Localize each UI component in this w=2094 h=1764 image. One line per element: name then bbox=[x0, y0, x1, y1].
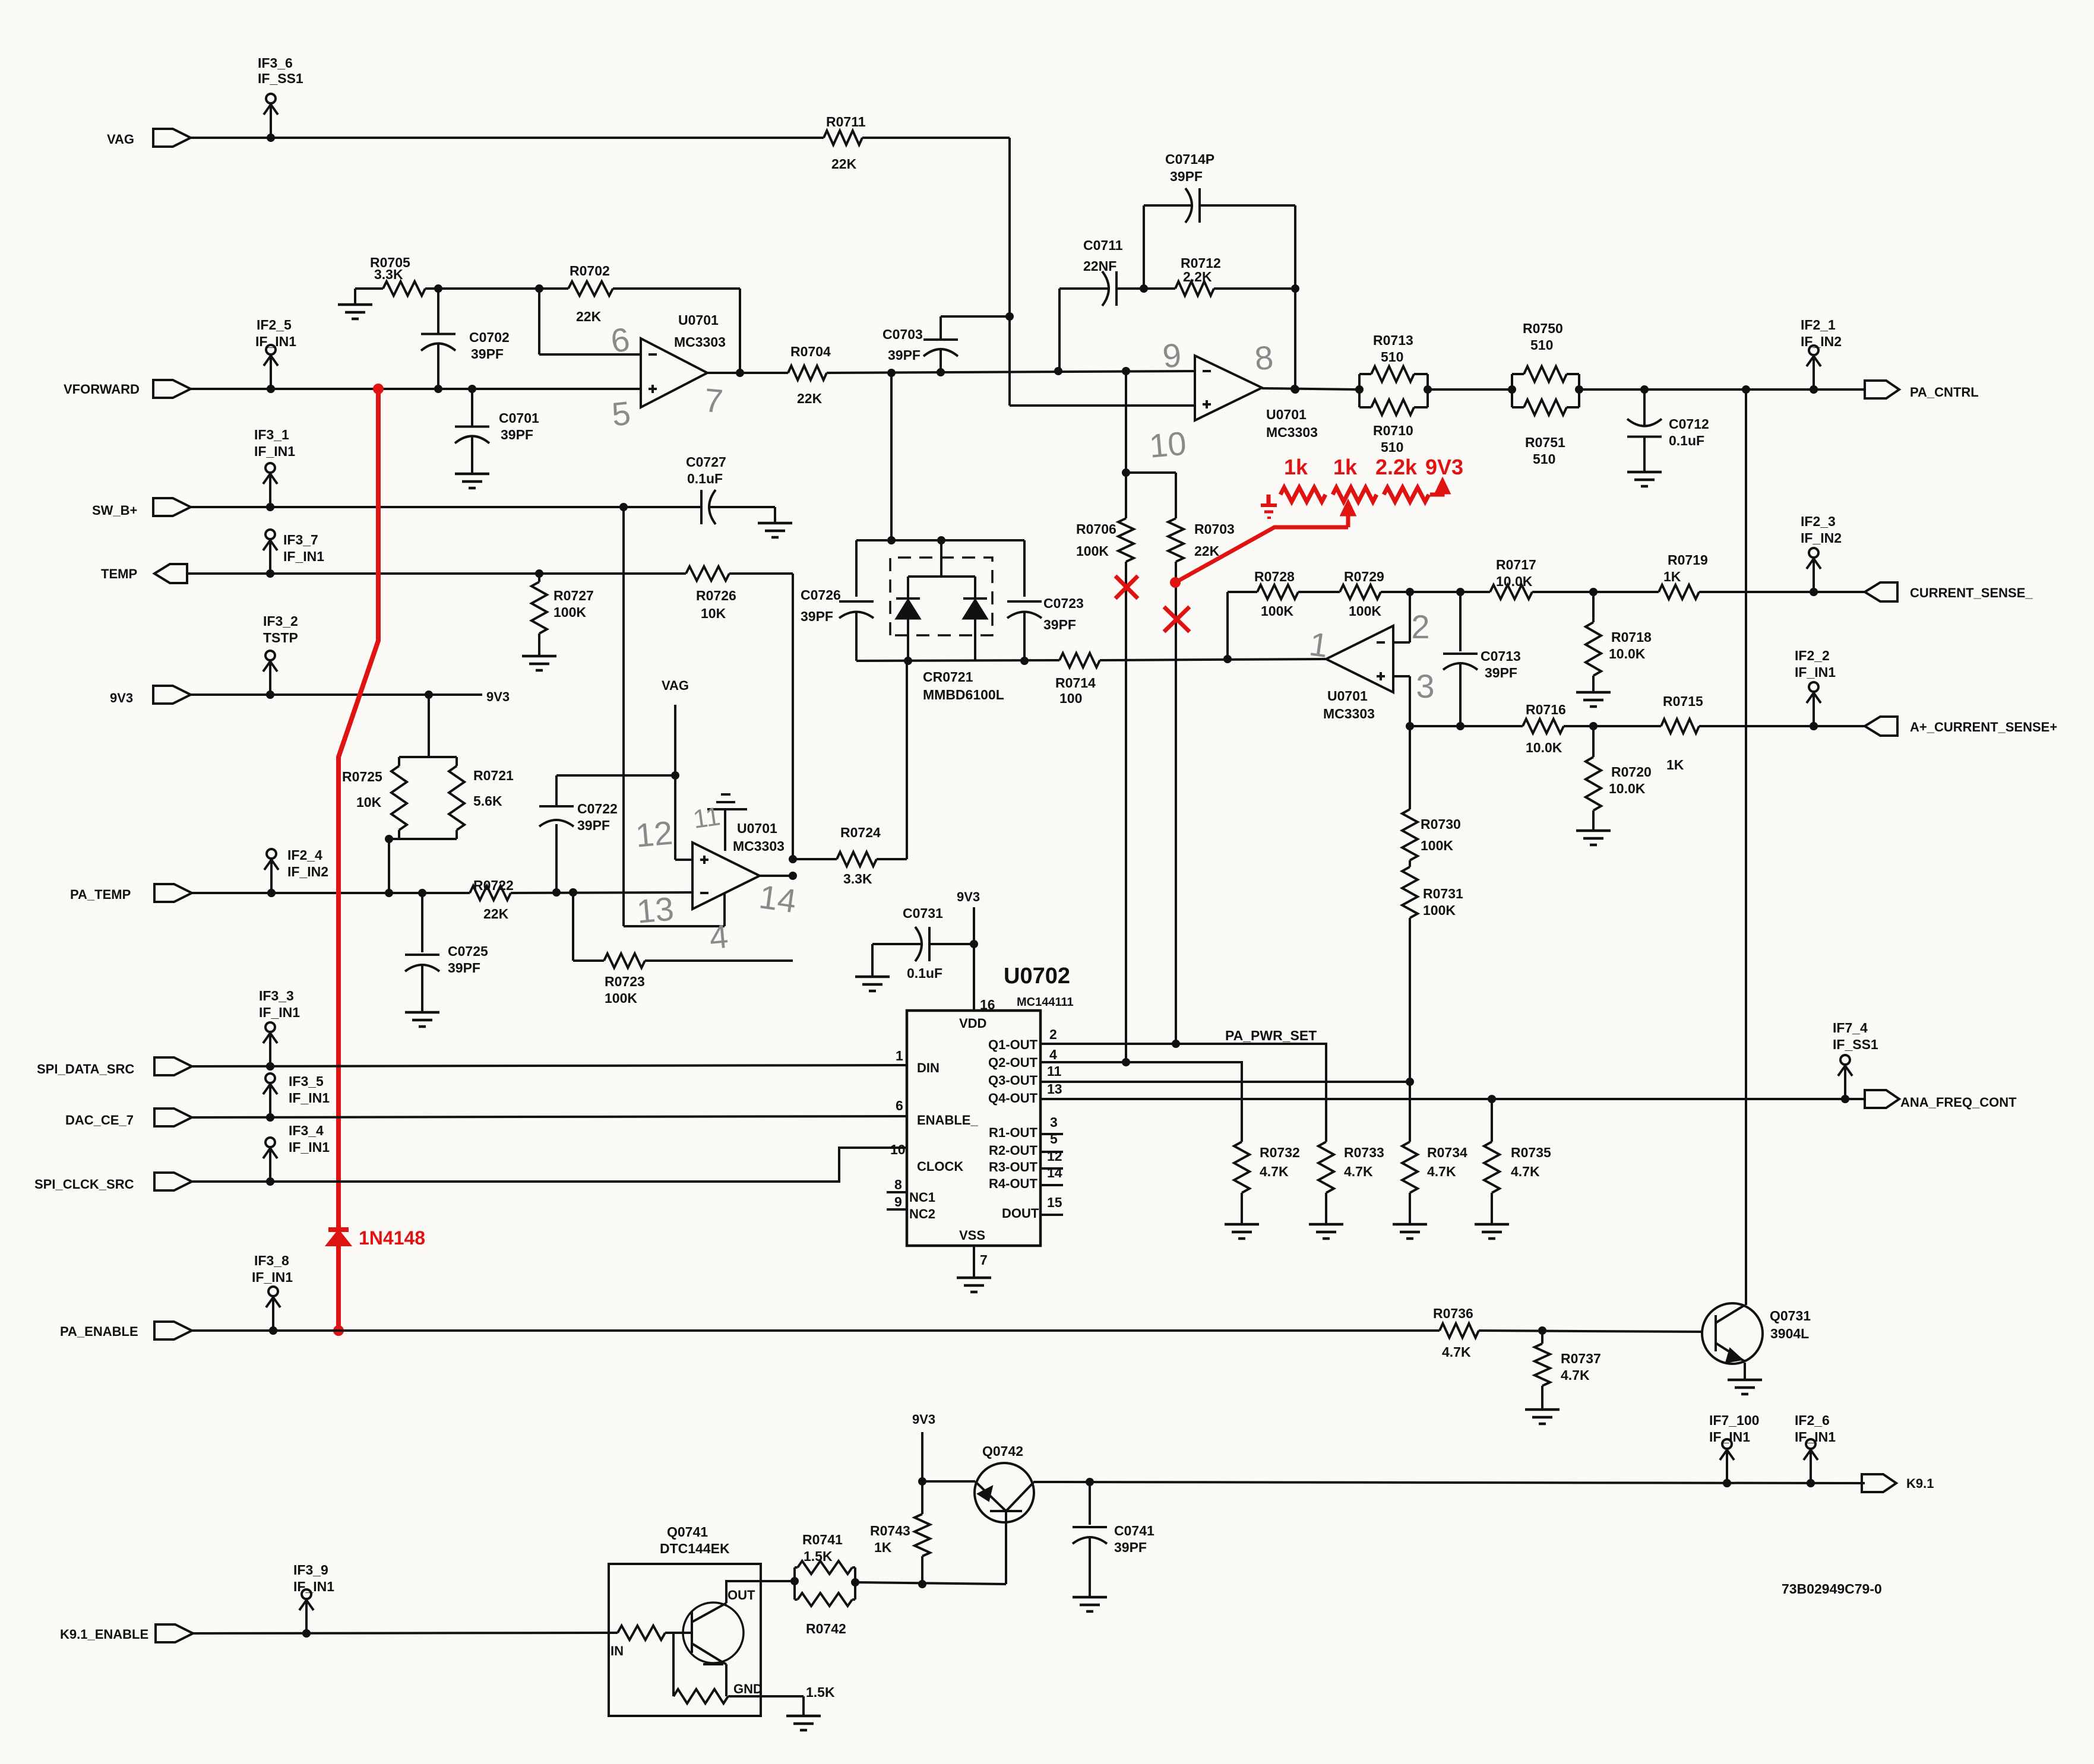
op-amp U0701 MC3303 section A bbox=[641, 338, 707, 407]
ground for R0705 bbox=[355, 287, 383, 290]
connector SPI_CLCK_SRC input bbox=[154, 1173, 192, 1190]
resistor R0728 100K bbox=[1257, 585, 1298, 599]
IC U0702 MC144111 box bbox=[907, 1011, 1040, 1246]
wire from R0704 node down to CR0721 bbox=[890, 373, 893, 540]
svg-text:R3-OUT: R3-OUT bbox=[989, 1160, 1037, 1174]
wire VAG line bbox=[191, 137, 824, 139]
svg-text:39PF: 39PF bbox=[1170, 169, 1203, 184]
svg-text:9V3: 9V3 bbox=[110, 691, 133, 705]
svg-text:IF_IN1: IF_IN1 bbox=[289, 1090, 330, 1106]
svg-text:4.7K: 4.7K bbox=[1344, 1164, 1373, 1179]
svg-text:10: 10 bbox=[890, 1142, 906, 1157]
svg-text:7: 7 bbox=[703, 381, 725, 420]
svg-text:IF7_4: IF7_4 bbox=[1833, 1020, 1868, 1035]
wire R0704 to second stage bbox=[827, 371, 1195, 373]
resistor R0704 22K bbox=[788, 366, 827, 380]
svg-text:IF3_6: IF3_6 bbox=[258, 55, 293, 71]
svg-text:SPI_DATA_SRC: SPI_DATA_SRC bbox=[37, 1062, 134, 1076]
svg-text:Q1-OUT: Q1-OUT bbox=[988, 1037, 1038, 1052]
wire feedback R0702 to op-amp output bbox=[613, 287, 740, 290]
wire VFORWARD line to op-amp + input bbox=[191, 388, 641, 390]
svg-text:22NF: 22NF bbox=[1083, 258, 1116, 274]
svg-text:7: 7 bbox=[980, 1252, 988, 1268]
wire R0731 down to R0734 bbox=[1409, 918, 1411, 1142]
svg-text:C0701: C0701 bbox=[499, 410, 539, 426]
wire Q4-OUT pin13 to ANA_FREQ_CONT bbox=[1040, 1098, 1865, 1100]
svg-text:K9.1: K9.1 bbox=[1906, 1476, 1934, 1491]
svg-text:8: 8 bbox=[1253, 338, 1275, 377]
svg-text:100K: 100K bbox=[1349, 603, 1381, 619]
svg-text:IF3_9: IF3_9 bbox=[293, 1562, 328, 1578]
svg-text:39PF: 39PF bbox=[577, 818, 610, 833]
svg-text:DOUT: DOUT bbox=[1002, 1206, 1039, 1221]
connector PA_TEMP input bbox=[154, 884, 192, 902]
svg-text:4.7K: 4.7K bbox=[1442, 1344, 1471, 1360]
svg-text:1: 1 bbox=[896, 1048, 903, 1063]
svg-text:2.2K: 2.2K bbox=[1183, 269, 1212, 284]
red resistor 1k second bbox=[1333, 487, 1377, 502]
svg-text:4.7K: 4.7K bbox=[1561, 1367, 1590, 1383]
svg-text:R0716: R0716 bbox=[1526, 702, 1566, 717]
svg-text:22K: 22K bbox=[831, 156, 857, 172]
svg-text:C0722: C0722 bbox=[577, 801, 618, 816]
svg-text:U0701: U0701 bbox=[737, 821, 777, 836]
svg-text:IF_SS1: IF_SS1 bbox=[258, 71, 303, 86]
svg-text:IF_IN1: IF_IN1 bbox=[289, 1139, 330, 1155]
wire Q3-OUT pin11 to R0730/R0731 node bbox=[1040, 1081, 1410, 1083]
svg-text:C0741: C0741 bbox=[1114, 1523, 1154, 1538]
svg-text:IF7_100: IF7_100 bbox=[1709, 1413, 1759, 1428]
capacitor C0723 39PF bbox=[1023, 540, 1026, 597]
svg-text:R0723: R0723 bbox=[605, 974, 645, 989]
svg-text:4: 4 bbox=[708, 917, 730, 956]
wire VAG to op-amp + input bbox=[674, 705, 676, 860]
svg-text:C0726: C0726 bbox=[801, 587, 841, 603]
svg-text:ENABLE_: ENABLE_ bbox=[917, 1113, 978, 1128]
svg-text:9: 9 bbox=[894, 1194, 902, 1209]
wire R0706 down to U0702 Q2-OUT bbox=[1125, 562, 1127, 1062]
capacitor C0726 39PF bbox=[855, 540, 858, 597]
transistor Q0731 3904L NPN bbox=[1702, 1303, 1763, 1364]
resistor pair R0713 / R0710 510 parallel bbox=[1358, 374, 1361, 407]
svg-text:CR0721: CR0721 bbox=[923, 669, 973, 685]
svg-text:1K: 1K bbox=[1663, 569, 1681, 584]
svg-text:100: 100 bbox=[1059, 691, 1082, 706]
connector SW_B+ input bbox=[153, 498, 191, 516]
svg-text:Q0731: Q0731 bbox=[1770, 1308, 1811, 1323]
svg-text:IF_IN1: IF_IN1 bbox=[293, 1579, 334, 1594]
svg-text:C0703: C0703 bbox=[882, 327, 923, 342]
svg-text:0.1uF: 0.1uF bbox=[907, 965, 942, 981]
svg-text:R0737: R0737 bbox=[1561, 1351, 1601, 1366]
red resistor 2.2k bbox=[1384, 487, 1429, 502]
svg-text:C0712: C0712 bbox=[1669, 416, 1709, 432]
transistor Q0741 DTC144EK box bbox=[609, 1564, 761, 1716]
svg-text:Q0742: Q0742 bbox=[982, 1443, 1023, 1459]
wire non-inverting input down to divider row bbox=[1393, 675, 1410, 677]
svg-text:R0702: R0702 bbox=[570, 263, 610, 278]
svg-text:R0730: R0730 bbox=[1421, 816, 1461, 832]
svg-text:9: 9 bbox=[1161, 336, 1183, 375]
svg-text:R0751: R0751 bbox=[1525, 435, 1565, 450]
svg-text:9V3: 9V3 bbox=[957, 889, 980, 904]
wire R0741 node to Q0742 base node bbox=[855, 1582, 1006, 1584]
svg-text:3904L: 3904L bbox=[1770, 1326, 1809, 1341]
pin 9 NC2 stub bbox=[887, 1208, 907, 1211]
svg-text:1K: 1K bbox=[1666, 757, 1684, 772]
svg-text:CURRENT_SENSE_: CURRENT_SENSE_ bbox=[1910, 585, 2033, 600]
dual diode CR0721 internal wiring bbox=[940, 540, 942, 577]
svg-text:22K: 22K bbox=[483, 906, 509, 921]
resistor R0733 4.7K bbox=[1318, 1142, 1334, 1193]
svg-text:3.3K: 3.3K bbox=[374, 267, 403, 282]
svg-text:0.1uF: 0.1uF bbox=[1669, 433, 1704, 448]
svg-text:0.1uF: 0.1uF bbox=[687, 471, 723, 486]
svg-text:R0715: R0715 bbox=[1663, 693, 1703, 709]
svg-text:R0703: R0703 bbox=[1194, 521, 1235, 537]
wire C0722 top to VAG node bbox=[556, 774, 675, 777]
resistor R0706 100K bbox=[1118, 518, 1134, 562]
ground for C0701 bbox=[455, 473, 489, 476]
svg-text:10K: 10K bbox=[356, 794, 382, 810]
svg-text:6: 6 bbox=[896, 1098, 903, 1113]
svg-text:39PF: 39PF bbox=[1043, 617, 1076, 632]
wire SW_B+ line bbox=[191, 506, 693, 508]
svg-text:R0732: R0732 bbox=[1260, 1145, 1300, 1160]
ground for C0712 bbox=[1627, 471, 1662, 474]
svg-text:100K: 100K bbox=[553, 604, 586, 620]
ground for R0718 bbox=[1576, 691, 1611, 694]
resistor R0705 3.3K bbox=[383, 281, 425, 296]
svg-text:C0723: C0723 bbox=[1043, 596, 1084, 611]
diode CR0721 A bbox=[896, 597, 920, 600]
svg-text:IF_IN2: IF_IN2 bbox=[1801, 530, 1842, 546]
red wire to 9V3 arrow bbox=[1430, 486, 1443, 495]
connector K9.1_ENABLE input bbox=[156, 1624, 193, 1642]
resistor R0719 1K bbox=[1659, 585, 1699, 599]
wire 9V3 to Q0742 emitter bbox=[921, 1432, 923, 1481]
svg-text:R0706: R0706 bbox=[1076, 521, 1116, 537]
resistor R0720 10.0K bbox=[1592, 726, 1595, 757]
resistor R0714 100 bbox=[1059, 653, 1100, 667]
wire Q0742 base down to R0741 node bbox=[1005, 1511, 1007, 1584]
svg-text:IF2_5: IF2_5 bbox=[257, 317, 292, 332]
wire CR0721 bottom rail bbox=[856, 660, 1059, 661]
connector 9V3 input bbox=[153, 686, 191, 704]
svg-text:DIN: DIN bbox=[917, 1060, 940, 1075]
wire R0703 down to U0702 Q1-OUT bbox=[1175, 562, 1177, 1044]
svg-text:4: 4 bbox=[1049, 1047, 1057, 1062]
wire CR0721 top rail bbox=[856, 539, 1024, 541]
svg-text:PA_ENABLE: PA_ENABLE bbox=[60, 1324, 138, 1339]
svg-text:13: 13 bbox=[635, 889, 676, 930]
svg-text:IF_IN1: IF_IN1 bbox=[252, 1269, 293, 1285]
pin 7 VSS ground bbox=[973, 1246, 975, 1278]
wire R0726 to op-amp output node bbox=[729, 572, 793, 575]
svg-text:IF_IN2: IF_IN2 bbox=[287, 864, 328, 879]
svg-text:VDD: VDD bbox=[959, 1016, 986, 1031]
op-amp U0701 MC3303 section B bbox=[1195, 356, 1262, 420]
wire PA_ENABLE line bbox=[192, 1329, 1440, 1332]
resistor R0702 22K bbox=[568, 281, 613, 296]
wire right side of feedback loop bbox=[1294, 205, 1296, 389]
svg-text:11: 11 bbox=[691, 802, 722, 834]
svg-text:R0743: R0743 bbox=[870, 1523, 910, 1538]
wire SPI_CLCK_SRC to CLOCK bbox=[192, 1148, 907, 1182]
svg-text:IF3_4: IF3_4 bbox=[289, 1123, 324, 1138]
connector DAC_CE_7 input bbox=[154, 1109, 192, 1126]
capacitor C0741 39PF bbox=[1089, 1482, 1091, 1525]
svg-text:IN: IN bbox=[611, 1643, 624, 1658]
capacitor C0703 39PF bbox=[940, 316, 942, 340]
svg-text:IF_IN1: IF_IN1 bbox=[254, 444, 295, 459]
connector VAG input bbox=[153, 129, 191, 147]
ground for C0741 bbox=[1073, 1596, 1107, 1599]
svg-text:MC3303: MC3303 bbox=[1323, 706, 1375, 721]
svg-text:C0725: C0725 bbox=[448, 943, 488, 959]
svg-text:A+_CURRENT_SENSE+: A+_CURRENT_SENSE+ bbox=[1910, 720, 2057, 734]
svg-text:Q3-OUT: Q3-OUT bbox=[988, 1073, 1038, 1088]
svg-text:73B02949C79-0: 73B02949C79-0 bbox=[1782, 1581, 1882, 1597]
wire R0736 to Q0731 base bbox=[1479, 1331, 1702, 1332]
svg-text:IF2_1: IF2_1 bbox=[1801, 317, 1836, 332]
wire feedback row from main line bbox=[1226, 592, 1229, 659]
svg-text:R0710: R0710 bbox=[1373, 423, 1413, 438]
wire DAC_CE_7 to ENABLE_ bbox=[192, 1116, 907, 1117]
svg-text:IF2_3: IF2_3 bbox=[1801, 514, 1836, 529]
resistor R0734 4.7K bbox=[1402, 1142, 1418, 1193]
svg-text:R0726: R0726 bbox=[696, 588, 736, 603]
svg-text:10: 10 bbox=[1148, 424, 1188, 464]
svg-text:IF3_3: IF3_3 bbox=[259, 988, 294, 1003]
capacitor C0714P 39PF feedback bbox=[1143, 205, 1145, 289]
svg-text:C0727: C0727 bbox=[686, 454, 726, 470]
svg-text:5.6K: 5.6K bbox=[473, 793, 502, 809]
ground for C0725 bbox=[405, 1011, 439, 1014]
ground for R0727 bbox=[522, 655, 556, 658]
wire SPI_DATA_SRC to DIN bbox=[192, 1065, 907, 1066]
wire K9.1_ENABLE to Q0741 IN bbox=[193, 1633, 618, 1633]
svg-text:1K: 1K bbox=[874, 1540, 892, 1555]
wire Q0731 emitter to ground bbox=[1744, 1363, 1746, 1380]
connector VFORWARD input bbox=[153, 380, 191, 398]
svg-text:TEMP: TEMP bbox=[101, 566, 137, 581]
svg-text:11: 11 bbox=[1047, 1063, 1062, 1079]
Q0741 internal collector to OUT bbox=[726, 1581, 795, 1603]
svg-text:CLOCK: CLOCK bbox=[917, 1159, 963, 1174]
capacitor C0702 39PF bbox=[437, 289, 439, 334]
connector PA_ENABLE input bbox=[154, 1322, 192, 1339]
svg-text:U0701: U0701 bbox=[1266, 407, 1307, 422]
resistor R0731 100K bbox=[1402, 867, 1418, 918]
wire PA_TEMP line to op-amp inverting input bbox=[192, 892, 470, 894]
wire SW_B+ down to op-amp pin 4 bbox=[622, 507, 625, 926]
svg-text:10.0K: 10.0K bbox=[1496, 574, 1533, 589]
wire R0724 up to CR0721 node bbox=[906, 661, 908, 859]
svg-text:9V3: 9V3 bbox=[486, 689, 510, 704]
svg-text:C0711: C0711 bbox=[1083, 237, 1123, 253]
svg-text:510: 510 bbox=[1530, 337, 1553, 353]
ground for Q0741 GND pin bbox=[802, 1696, 805, 1716]
svg-text:R0733: R0733 bbox=[1344, 1145, 1384, 1160]
connector K9.1 output bbox=[1862, 1474, 1896, 1492]
svg-text:12: 12 bbox=[634, 813, 675, 854]
wire to CURRENT_SENSE_ connector bbox=[1699, 591, 1865, 593]
svg-text:100K: 100K bbox=[1076, 543, 1109, 559]
svg-text:R0728: R0728 bbox=[1254, 569, 1295, 584]
svg-text:1k: 1k bbox=[1284, 455, 1308, 479]
svg-text:100K: 100K bbox=[1423, 902, 1456, 918]
wire from inverting input node down to R0706/R0703 bbox=[1125, 371, 1127, 473]
connector SPI_DATA_SRC input bbox=[154, 1057, 192, 1075]
svg-text:10.0K: 10.0K bbox=[1609, 646, 1646, 661]
svg-text:39PF: 39PF bbox=[801, 609, 833, 624]
wire op-amp output bbox=[760, 875, 793, 877]
svg-text:14: 14 bbox=[1047, 1165, 1062, 1180]
wire to PA_CNTRL connector bbox=[1579, 388, 1865, 391]
svg-text:39PF: 39PF bbox=[888, 347, 921, 363]
svg-text:Q4-OUT: Q4-OUT bbox=[988, 1091, 1038, 1106]
svg-text:510: 510 bbox=[1533, 451, 1555, 467]
svg-text:2.2k: 2.2k bbox=[1375, 455, 1418, 479]
svg-text:SW_B+: SW_B+ bbox=[92, 503, 137, 518]
svg-text:R0718: R0718 bbox=[1611, 629, 1652, 645]
connector CURRENT_SENSE_ bbox=[1865, 582, 1897, 601]
wire inverting input to feedback row bbox=[1393, 641, 1410, 644]
connector PA_CNTRL output bbox=[1865, 381, 1899, 398]
svg-text:IF3_5: IF3_5 bbox=[289, 1073, 324, 1089]
Q0741 internal base resistor bbox=[618, 1626, 665, 1640]
svg-text:IF3_2: IF3_2 bbox=[263, 613, 298, 629]
resistor R0703 22K bbox=[1168, 518, 1184, 562]
resistor R0729 100K bbox=[1340, 585, 1381, 599]
resistor pair R0750 / R0751 510 parallel bbox=[1511, 374, 1513, 407]
svg-text:OUT: OUT bbox=[727, 1588, 755, 1603]
resistor R0715 1K bbox=[1661, 719, 1699, 733]
svg-text:1N4148: 1N4148 bbox=[359, 1227, 425, 1249]
svg-text:510: 510 bbox=[1381, 349, 1403, 365]
dual diode CR0721 MMBD6100L dashed outline bbox=[890, 558, 992, 635]
svg-text:R0720: R0720 bbox=[1611, 764, 1652, 780]
red tap wire from R0703 bbox=[1170, 577, 1181, 588]
svg-text:ANA_FREQ_CONT: ANA_FREQ_CONT bbox=[1900, 1095, 2017, 1110]
ground for C0731 bbox=[871, 944, 874, 977]
svg-text:3: 3 bbox=[1416, 667, 1434, 705]
svg-text:R0741: R0741 bbox=[802, 1532, 843, 1547]
red mod wire VFORWARD to PA_ENABLE bbox=[373, 384, 384, 394]
svg-text:VAG: VAG bbox=[662, 678, 689, 693]
svg-text:R4-OUT: R4-OUT bbox=[989, 1176, 1037, 1191]
svg-text:IF3_8: IF3_8 bbox=[254, 1253, 289, 1268]
svg-text:MC3303: MC3303 bbox=[674, 334, 726, 350]
svg-text:R0719: R0719 bbox=[1668, 552, 1708, 568]
svg-text:MMBD6100L: MMBD6100L bbox=[923, 687, 1004, 702]
svg-text:13: 13 bbox=[1047, 1081, 1062, 1097]
svg-text:R0731: R0731 bbox=[1423, 886, 1463, 901]
wire C0711 left leg down to inverting input bbox=[1058, 289, 1061, 371]
svg-text:1.5K: 1.5K bbox=[806, 1684, 835, 1700]
red X cut mark on R0703 line bbox=[1164, 607, 1190, 632]
svg-text:IF2_2: IF2_2 bbox=[1795, 648, 1830, 663]
diode CR0721 B bbox=[963, 597, 987, 600]
pin 8 NC1 stub bbox=[887, 1191, 907, 1193]
svg-text:MC144111: MC144111 bbox=[1017, 996, 1074, 1009]
capacitor C0711 22NF bbox=[1059, 287, 1109, 290]
svg-text:R0725: R0725 bbox=[342, 769, 382, 784]
svg-text:14: 14 bbox=[757, 878, 798, 920]
connector A+_CURRENT_SENSE+ bbox=[1865, 717, 1897, 736]
svg-text:R0717: R0717 bbox=[1496, 557, 1536, 572]
ground for C0727 bbox=[774, 507, 776, 523]
capacitor C0713 39PF bbox=[1459, 592, 1462, 651]
svg-text:4.7K: 4.7K bbox=[1511, 1164, 1540, 1179]
svg-text:IF_IN1: IF_IN1 bbox=[283, 549, 324, 564]
svg-text:R0736: R0736 bbox=[1433, 1306, 1473, 1321]
svg-text:R0704: R0704 bbox=[790, 344, 831, 359]
svg-text:9V3: 9V3 bbox=[912, 1412, 935, 1427]
wire K9.1 line bbox=[1033, 1482, 1865, 1483]
wire C0703 top to VAG feedback line bbox=[941, 315, 1010, 318]
Q0741 internal transistor bbox=[683, 1603, 744, 1663]
svg-text:IF2_4: IF2_4 bbox=[287, 847, 322, 863]
svg-text:IF_IN1: IF_IN1 bbox=[1795, 664, 1836, 680]
svg-text:GND: GND bbox=[733, 1681, 763, 1696]
red diode 1N4148 bbox=[328, 1227, 349, 1232]
svg-text:39PF: 39PF bbox=[1485, 665, 1517, 680]
svg-text:12: 12 bbox=[1047, 1148, 1062, 1164]
svg-text:NC2: NC2 bbox=[909, 1206, 935, 1221]
capacitor C0727 0.1uF bbox=[693, 506, 701, 508]
svg-text:1.5K: 1.5K bbox=[804, 1548, 833, 1564]
svg-text:R0711: R0711 bbox=[826, 114, 866, 129]
svg-text:5: 5 bbox=[1050, 1131, 1058, 1147]
resistor R0724 3.3K bbox=[793, 858, 837, 860]
svg-text:39PF: 39PF bbox=[501, 427, 533, 442]
svg-text:IF_IN1: IF_IN1 bbox=[1709, 1429, 1750, 1445]
svg-text:IF_IN1: IF_IN1 bbox=[259, 1005, 300, 1020]
connector ANA_FREQ_CONT output bbox=[1865, 1090, 1899, 1108]
wire Q1-OUT pin2 to R0733 bbox=[1040, 1044, 1326, 1142]
svg-text:R0722: R0722 bbox=[473, 878, 514, 893]
svg-text:K9.1_ENABLE: K9.1_ENABLE bbox=[60, 1627, 148, 1642]
svg-text:IF2_6: IF2_6 bbox=[1795, 1413, 1830, 1428]
op-amp U0701 MC3303 section facing left bbox=[1326, 626, 1393, 692]
svg-text:510: 510 bbox=[1381, 439, 1403, 455]
svg-text:MC3303: MC3303 bbox=[733, 838, 785, 854]
svg-text:U0701: U0701 bbox=[1327, 688, 1368, 704]
resistor R0726 10K bbox=[686, 566, 729, 581]
red tap arrow to divider bbox=[1346, 509, 1350, 527]
svg-text:MC3303: MC3303 bbox=[1266, 425, 1318, 440]
resistor R0727 100K bbox=[532, 582, 547, 634]
svg-text:R2-OUT: R2-OUT bbox=[989, 1143, 1037, 1158]
svg-text:DTC144EK: DTC144EK bbox=[660, 1541, 730, 1556]
resistor R0735 4.7K bbox=[1484, 1142, 1500, 1193]
red ground symbol bbox=[1267, 495, 1271, 505]
svg-text:15: 15 bbox=[1047, 1195, 1062, 1210]
svg-text:NC1: NC1 bbox=[909, 1190, 935, 1205]
svg-text:3.3K: 3.3K bbox=[843, 871, 872, 886]
svg-text:10.0K: 10.0K bbox=[1526, 740, 1562, 755]
svg-text:9V3: 9V3 bbox=[1425, 455, 1463, 479]
resistor R0736 4.7K bbox=[1440, 1323, 1479, 1338]
ground for R0735 bbox=[1475, 1223, 1509, 1226]
svg-text:3: 3 bbox=[1050, 1114, 1058, 1130]
svg-text:PA_PWR_SET: PA_PWR_SET bbox=[1225, 1028, 1317, 1043]
svg-text:R0713: R0713 bbox=[1373, 332, 1413, 348]
svg-text:2: 2 bbox=[1049, 1027, 1057, 1042]
svg-text:22K: 22K bbox=[797, 391, 823, 406]
